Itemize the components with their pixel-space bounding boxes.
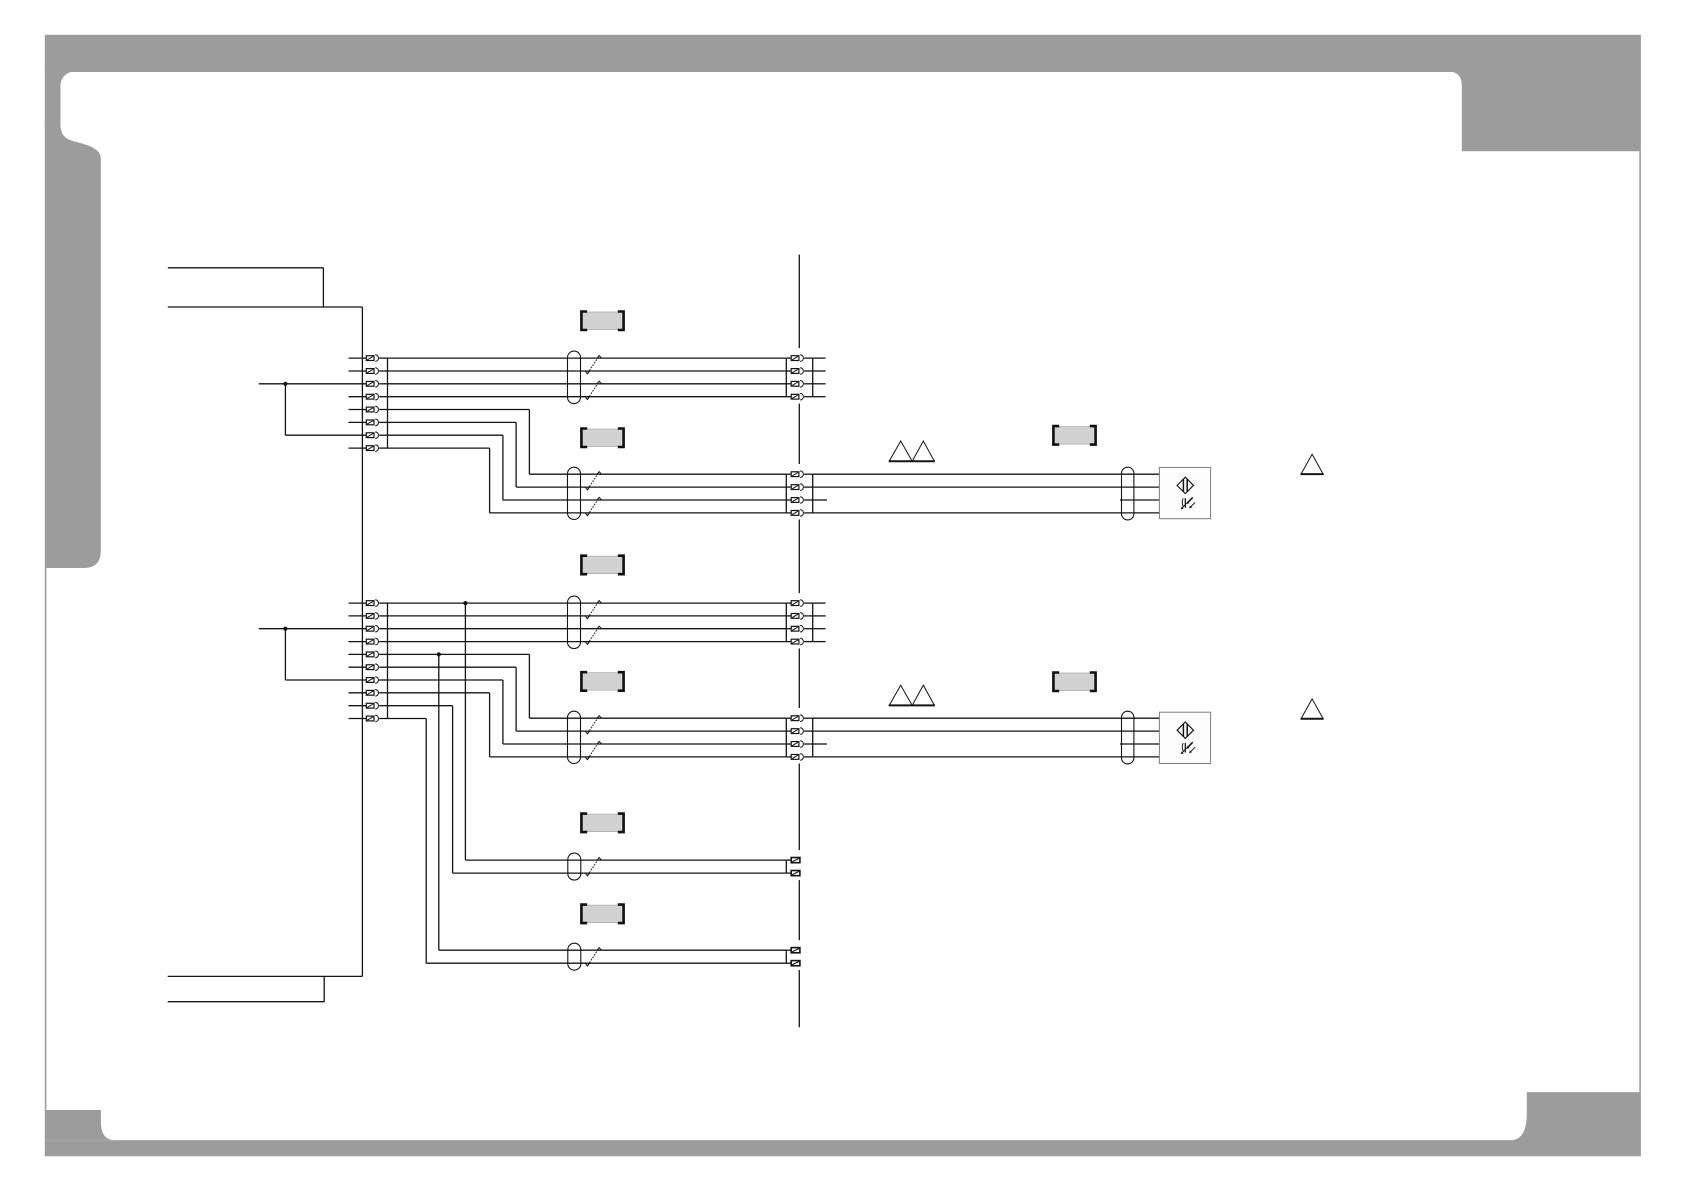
twisted pair mark T4 [585, 497, 601, 515]
connector CN4 pin 8 [349, 690, 388, 697]
page frame left strip [45, 72, 61, 127]
cable bundle shield S6 [1122, 711, 1134, 764]
twisted pair mark T9 [585, 858, 601, 876]
twisted pair mark T2 [585, 381, 601, 399]
connector CN1 pin 6 [349, 419, 388, 426]
cable bundle shield S1 [568, 351, 581, 404]
connector CN3 pin 3 [786, 497, 812, 504]
cable bundle shield S2 [568, 467, 581, 519]
wire harness W1 rows 1-4 [388, 358, 787, 397]
connector CN5 pin 2 [786, 613, 812, 620]
node CN1 ground branch [283, 382, 287, 436]
connector CN7 pin 1 [786, 858, 800, 863]
wire CN6 bus right [812, 718, 814, 757]
wire CN1 bus [387, 358, 389, 448]
connector CN4 pin 10 [349, 715, 388, 722]
connector CN5 pin 1 [786, 600, 812, 607]
twisted pair mark T5 [585, 601, 601, 619]
main board outline bottom [168, 976, 363, 1001]
wire W8 pin10 drop [388, 719, 787, 964]
photo sensor PS2 [1159, 712, 1210, 763]
label harness tag L3 [1053, 426, 1095, 445]
connector CN1 pin 2 [349, 368, 388, 375]
connector CN8 (2-pin) [785, 950, 787, 963]
connector CN6 pin 3 [786, 741, 812, 748]
connector CN1 pin 3 [259, 381, 388, 388]
wire harness W2 rows 5-8 stepped [388, 410, 787, 513]
connector CN4 pin 3 [259, 625, 388, 632]
cable bundle shield S4 [568, 596, 581, 648]
page frame inner corner fillet [61, 72, 75, 86]
wire W7 pin9 drop [388, 706, 787, 873]
wire harness W3 rows 1-4 [388, 603, 787, 642]
connector CN4 pin 2 [349, 613, 388, 620]
twisted pair mark T7 [585, 716, 601, 734]
label harness tag L4 [581, 556, 623, 575]
wire CN2 bus right [813, 358, 826, 397]
page frame top band [45, 35, 1641, 72]
connector CN1 pin 1 [349, 355, 388, 362]
connector CN8 pin 1 [786, 948, 800, 953]
page frame left edge line [45, 568, 47, 1110]
connector CN1 pin 5 [349, 406, 388, 413]
connector CN6 pin 1 [786, 715, 812, 722]
page frame bottom-left tab [45, 1110, 115, 1140]
connector CN4 pin 5 [349, 651, 388, 658]
connector CN7 pin 2 [786, 871, 800, 876]
wire CN3 bus right [812, 474, 814, 513]
wire CN5 bus right [813, 603, 826, 642]
label harness tag L2 [581, 429, 623, 448]
connector CN2 (4-pin) [785, 358, 787, 397]
warning triangle 3 [1301, 454, 1324, 474]
page frame top-right tab [1448, 72, 1641, 152]
label harness tag L5 [581, 672, 623, 691]
connector CN5 (4-pin) [785, 603, 787, 642]
page frame bottom band [45, 1140, 1641, 1156]
page frame right edge line [1639, 151, 1641, 1092]
connector CN2 pin 4 [786, 393, 812, 400]
connector CN4 pin 1 [349, 600, 388, 607]
twisted pair mark T10 [585, 948, 601, 966]
warning triangle 6 [1301, 699, 1324, 719]
warning triangles 4-5 [889, 685, 935, 705]
node CN4 ground branch [283, 627, 287, 680]
photo sensor PS1 [1159, 467, 1210, 518]
connector CN7 (2-pin) [785, 860, 787, 873]
main board edge vertical [361, 307, 363, 976]
connector CN4 pin 7 [285, 677, 387, 684]
label harness tag L8 [581, 905, 623, 924]
connector CN2 pin 2 [786, 368, 812, 375]
connector CN6 pin 4 [786, 754, 812, 761]
connector CN3 pin 1 [786, 471, 812, 478]
wire W5 drop to pair A [465, 603, 786, 860]
warning triangles 1-2 [889, 441, 935, 461]
main board outline top [168, 268, 363, 307]
wire W6 drop to pair B [439, 654, 787, 950]
label harness tag L1 [581, 312, 623, 331]
cable bundle shield S8 [568, 943, 581, 970]
twisted pair mark T3 [585, 472, 601, 490]
connector CN1 pin 7 [285, 432, 387, 439]
connector CN6 pin 2 [786, 728, 812, 735]
cable bundle shield S3 [1122, 467, 1134, 520]
connector CN2 pin 3 [786, 381, 812, 388]
connector CN2 pin 1 [786, 355, 812, 362]
connector CN4 pin 6 [349, 664, 388, 671]
cable bundle shield S5 [568, 711, 581, 763]
twisted pair mark T8 [585, 741, 601, 759]
connector CN1 pin 8 [349, 445, 388, 452]
node W5 tap on row 1 [463, 601, 467, 605]
connector CN3 (4-pin) [785, 474, 787, 513]
connector CN4 pin 4 [349, 638, 388, 645]
label harness tag L6 [1053, 673, 1095, 692]
page frame left tab [45, 120, 101, 568]
node W6 tap on row 5 [437, 652, 441, 656]
label harness tag L7 [581, 814, 623, 833]
cable bundle shield S7 [568, 853, 581, 880]
connector CN4 pin 9 [349, 702, 388, 709]
wire sensor harness 2 [813, 718, 1160, 757]
connector CN5 pin 3 [786, 625, 812, 632]
wire sensor harness 1 [813, 474, 1160, 513]
connector CN3 pin 2 [786, 484, 812, 491]
connector CN8 pin 2 [786, 961, 800, 966]
connector CN6 (4-pin) [785, 718, 787, 757]
connector CN1 pin 4 [349, 393, 388, 400]
connector CN3 pin 4 [786, 510, 812, 517]
page frame bottom-right tab [1510, 1092, 1641, 1140]
twisted pair mark T6 [585, 626, 601, 644]
wire harness W4 rows 5-8 stepped [388, 654, 787, 757]
board boundary line [798, 255, 800, 1028]
twisted pair mark T1 [585, 356, 601, 374]
connector CN5 pin 4 [786, 638, 812, 645]
wire CN4 bus [387, 603, 389, 718]
